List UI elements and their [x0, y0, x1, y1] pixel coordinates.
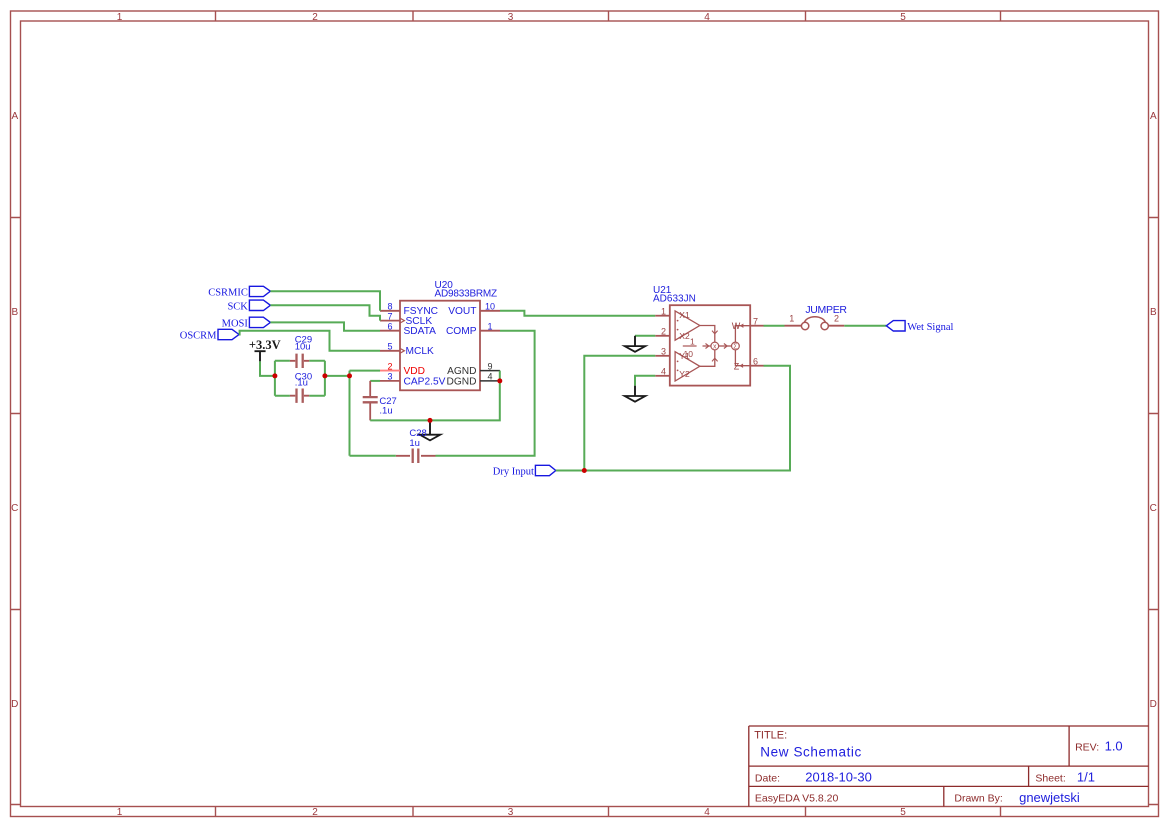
svg-text:4: 4	[704, 807, 710, 818]
svg-text:VOUT: VOUT	[448, 306, 476, 317]
svg-text:Dry Input: Dry Input	[493, 467, 534, 478]
net flag MOSI	[222, 317, 271, 329]
svg-text:x: x	[713, 343, 717, 350]
svg-text:5: 5	[900, 807, 906, 818]
svg-text:CSRMIC: CSRMIC	[208, 287, 248, 298]
wire node to U21 pin6	[584, 366, 790, 471]
svg-text:+3.3V: +3.3V	[249, 338, 281, 352]
svg-text:New Schematic: New Schematic	[760, 745, 862, 760]
svg-text:COMP: COMP	[446, 326, 477, 337]
net flag Wet Signal	[886, 321, 953, 333]
svg-text:C: C	[1150, 503, 1157, 514]
svg-text:gnewjetski: gnewjetski	[1019, 790, 1080, 805]
U21 pin 1	[655, 307, 670, 317]
svg-text:D: D	[11, 699, 18, 710]
junction +3.3V right of cap bank	[322, 373, 327, 378]
wire cap bank loop	[275, 361, 325, 396]
svg-text:Drawn By:: Drawn By:	[954, 793, 1002, 805]
svg-text:AD633JN: AD633JN	[653, 294, 696, 305]
U21 W output branch	[732, 321, 750, 342]
svg-text:1: 1	[661, 307, 666, 317]
U20 pin 2 VDD	[380, 361, 425, 377]
wire cap bank to VDD and down	[325, 371, 380, 456]
wire U20 pin3 to C27	[370, 380, 380, 382]
svg-text:1/1: 1/1	[1077, 770, 1095, 785]
svg-text:2: 2	[312, 12, 318, 23]
svg-text:Wet Signal: Wet Signal	[907, 322, 953, 333]
svg-text:1: 1	[117, 12, 123, 23]
op-amp U21 AD633JN body	[653, 285, 750, 386]
svg-text:1: 1	[117, 807, 123, 818]
net flag Dry Input	[493, 465, 556, 477]
svg-text:.1u: .1u	[379, 406, 392, 417]
svg-text:1: 1	[487, 322, 492, 332]
U21 pin 3	[655, 347, 670, 357]
svg-text:MOSI: MOSI	[222, 318, 249, 329]
svg-text:A: A	[1150, 111, 1157, 122]
svg-text:7: 7	[753, 316, 758, 326]
wire U21 pin3 to Dry Input node	[584, 356, 655, 471]
U20 pin 6 SDATA	[380, 322, 436, 338]
net flag OSCRM	[180, 329, 239, 341]
svg-text:10: 10	[485, 302, 495, 312]
U21 amp Y triangle	[675, 351, 700, 381]
U21 Z input branch	[734, 350, 750, 371]
svg-text:8: 8	[387, 302, 392, 312]
svg-text:5: 5	[387, 342, 392, 352]
svg-text:3: 3	[508, 12, 514, 23]
wire +3.3V to cap bank	[260, 361, 275, 376]
U21 summing circle	[719, 342, 740, 350]
U21 multiplier circle	[700, 326, 719, 367]
op-amp U20 AD9833BRMZ body	[400, 280, 497, 390]
U20 pin 5 MCLK	[380, 342, 434, 358]
svg-text:X2: X2	[679, 331, 690, 341]
svg-text:2018-10-30: 2018-10-30	[805, 770, 872, 785]
junction Dry Input node	[582, 468, 587, 473]
capacitor C30	[290, 372, 312, 403]
wire C28 right to COMP	[436, 331, 535, 456]
wire VOUT to U21 pin1	[500, 311, 655, 316]
net flag CSRMIC	[208, 286, 270, 298]
svg-text:4: 4	[704, 12, 710, 23]
svg-text:SDATA: SDATA	[404, 326, 437, 337]
U21 gain fraction 1/10	[683, 337, 697, 360]
svg-text:A: A	[11, 111, 18, 122]
U20 pin 1 COMP	[446, 322, 500, 338]
capacitor C28	[396, 428, 436, 463]
svg-text:6: 6	[387, 322, 392, 332]
U21 amp X triangle	[675, 310, 700, 341]
U20 pin 3 CAP2.5V	[380, 372, 446, 388]
svg-text:MCLK: MCLK	[406, 346, 435, 357]
svg-text:3: 3	[387, 372, 392, 382]
svg-text:5: 5	[900, 12, 906, 23]
junction ground net at C27	[428, 418, 433, 423]
wire jumper to Wet Signal	[844, 325, 886, 327]
U20 pin 4 DGND	[447, 372, 501, 388]
svg-text:6: 6	[753, 356, 758, 366]
svg-text:Z: Z	[734, 361, 740, 371]
svg-text:3: 3	[508, 807, 514, 818]
svg-text:10: 10	[684, 349, 694, 359]
svg-text:SCK: SCK	[227, 301, 248, 312]
wire Dry Input to node	[556, 470, 585, 472]
svg-text:9: 9	[487, 361, 492, 371]
svg-text:B: B	[11, 307, 18, 318]
junction +3.3V left of cap bank	[272, 373, 277, 378]
U20 pin 9 AGND	[447, 361, 500, 377]
wire AGND-DGND link	[499, 371, 501, 381]
wire CSRMIC to U20 pin8	[270, 291, 380, 311]
wire SCK to U20 pin7	[270, 305, 380, 320]
svg-text:Sheet:: Sheet:	[1035, 772, 1065, 784]
svg-text:TITLE:: TITLE:	[754, 730, 787, 742]
svg-text:CAP2.5V: CAP2.5V	[404, 376, 446, 387]
wire U21 pin4 to ground	[635, 376, 655, 386]
junction at DGND pin	[497, 378, 502, 383]
svg-text:2: 2	[312, 807, 318, 818]
U21 pin 2	[655, 327, 670, 337]
wire U21 pin2 to ground	[635, 335, 655, 337]
svg-text:4: 4	[661, 367, 666, 377]
svg-text:JUMPER: JUMPER	[805, 304, 847, 316]
svg-text:AD9833BRMZ: AD9833BRMZ	[435, 288, 498, 299]
wire C28 left leg	[350, 455, 396, 457]
capacitor C27	[363, 381, 397, 421]
svg-text:2: 2	[661, 327, 666, 337]
net flag SCK	[227, 300, 270, 312]
svg-text:1: 1	[690, 337, 695, 347]
svg-text:1u: 1u	[409, 438, 420, 449]
svg-text:.1u: .1u	[295, 378, 308, 389]
ground at U21 pin4	[625, 386, 646, 402]
svg-text:W: W	[732, 321, 741, 331]
svg-text:1: 1	[789, 314, 794, 324]
svg-text:DGND: DGND	[447, 376, 477, 387]
svg-text:7: 7	[387, 311, 392, 321]
svg-text:3: 3	[661, 347, 666, 357]
wire OSCRM to U20 pin5	[239, 331, 380, 351]
svg-text:4: 4	[487, 372, 492, 382]
capacitor C29	[290, 334, 312, 368]
svg-text:B: B	[1150, 307, 1157, 318]
svg-text:2: 2	[387, 361, 392, 371]
junction +3.3V at VDD branch	[347, 373, 352, 378]
U21 pin 7	[750, 316, 763, 326]
jumper J	[785, 304, 848, 330]
ground at U21 pin2	[625, 336, 646, 352]
wire MOSI to U20 pin6	[270, 322, 380, 330]
svg-text:EasyEDA V5.8.20: EasyEDA V5.8.20	[755, 793, 839, 805]
wire U21 pin7 to jumper	[764, 325, 785, 327]
svg-text:X1: X1	[679, 310, 690, 320]
svg-text:2: 2	[834, 314, 839, 324]
ground near C28	[420, 420, 441, 440]
U20 pin 10 VOUT	[448, 302, 500, 318]
svg-text:Y2: Y2	[679, 369, 690, 379]
svg-text:D: D	[1150, 699, 1157, 710]
U20 pin 7 SCLK	[380, 311, 432, 327]
svg-text:C: C	[11, 503, 18, 514]
svg-text:REV:: REV:	[1075, 741, 1099, 753]
svg-text:10u: 10u	[295, 342, 311, 353]
wire C27 bottom to DGND node	[370, 381, 500, 421]
svg-text:1.0: 1.0	[1105, 738, 1123, 753]
svg-text:Σ: Σ	[733, 343, 738, 350]
svg-text:Date:: Date:	[755, 773, 780, 785]
power flag +3.3V	[249, 338, 281, 361]
U21 pin 6	[750, 356, 763, 366]
svg-text:OSCRM: OSCRM	[180, 331, 217, 342]
U21 pin 4	[655, 367, 670, 377]
U20 pin 8 FSYNC	[380, 302, 438, 318]
